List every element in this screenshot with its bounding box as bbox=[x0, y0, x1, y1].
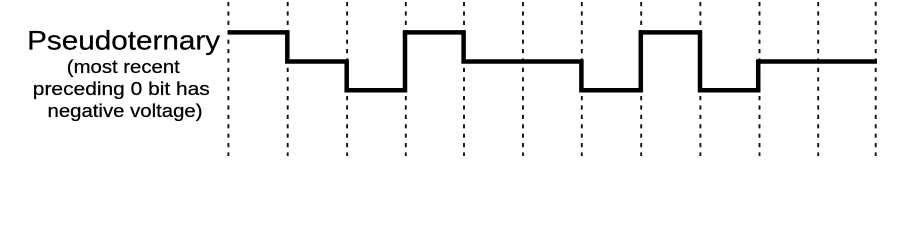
svg-text:negative voltage): negative voltage) bbox=[48, 100, 203, 121]
svg-text:(most recent: (most recent bbox=[67, 56, 180, 77]
svg-text:preceding 0 bit has: preceding 0 bit has bbox=[33, 78, 210, 99]
svg-text:Pseudoternary: Pseudoternary bbox=[27, 25, 221, 55]
